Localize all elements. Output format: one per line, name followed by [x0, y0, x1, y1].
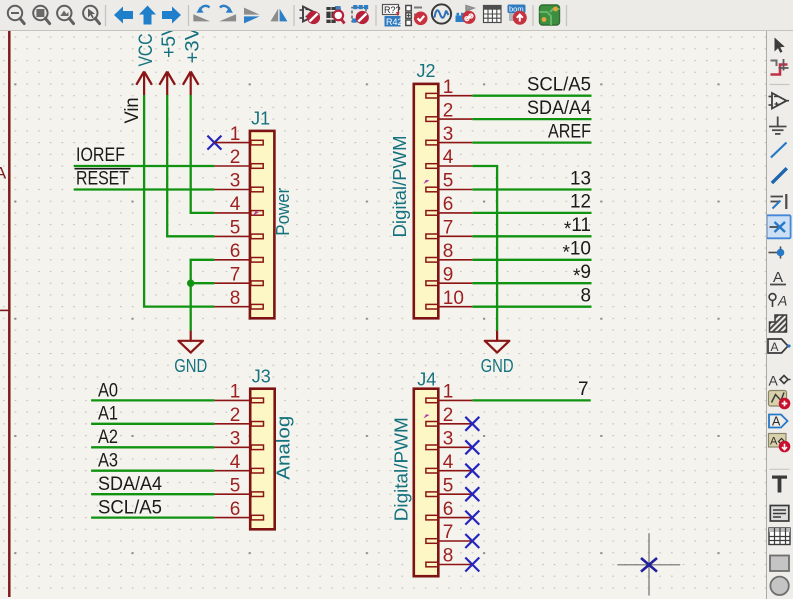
wire J3 pin3 label A2 [91, 446, 214, 448]
wire J2 pin3 to label AREF [472, 141, 591, 143]
label *11 [564, 215, 591, 240]
wire J2 pin2 to label SDA/A4 [472, 118, 591, 120]
rtool hier-label [769, 373, 791, 389]
svg-text:1: 1 [443, 382, 454, 403]
J2 anchor mark [424, 180, 430, 184]
wire J1 pin6 to GND branch [191, 260, 215, 283]
label Vin [122, 98, 143, 124]
rtool place-sheet [769, 391, 791, 410]
label AREF [548, 121, 591, 142]
svg-text:J4: J4 [417, 369, 436, 389]
svg-text:A: A [769, 373, 779, 389]
connector J1 pin 1 [214, 124, 263, 145]
svg-text:4: 4 [443, 147, 454, 168]
svg-text:8: 8 [581, 286, 592, 307]
svg-text:5: 5 [230, 218, 241, 239]
label SDA/A4 [527, 98, 591, 119]
rtool wire [771, 143, 787, 158]
rtool rule-area [770, 315, 787, 332]
connector J2 pin 3 [426, 124, 472, 145]
rtool highlight-net [771, 59, 789, 75]
no-connect J4 pin 3 [465, 440, 479, 454]
wire +3V3 vertical to pin4 row [191, 95, 215, 213]
label SCL/A5 [98, 498, 162, 519]
wire J2 pin9 to label *9 [472, 282, 591, 284]
connector J3 pin 5 [214, 475, 263, 496]
connector J1 pin 4 [214, 194, 263, 215]
connector J1 pin 5 [214, 218, 263, 239]
tool library-browser (disabled) [326, 6, 344, 24]
wire J1 pin7 to GND branch [191, 282, 215, 284]
connector J2 pin 8 [426, 241, 472, 262]
connector J2 pin 10 [426, 288, 472, 309]
wire J2 pin6 to label 12 [472, 212, 591, 214]
svg-text:VCC: VCC [136, 34, 157, 67]
svg-text:2: 2 [230, 405, 241, 426]
tool ERC [406, 6, 428, 26]
wire J2 pin8 to label *10 [472, 259, 591, 261]
svg-text:7: 7 [578, 379, 589, 400]
connector J4 pin 7 [426, 522, 472, 543]
tool zoom-out [8, 6, 24, 24]
wire J2 pin10 to label 8 [472, 306, 591, 308]
tool fields-table [484, 6, 502, 23]
tool mirror-h [244, 8, 260, 24]
svg-text:12: 12 [570, 192, 591, 213]
svg-text:1: 1 [443, 77, 454, 98]
svg-text:A1: A1 [98, 404, 118, 425]
wire J4 pin1 to label 7 [472, 399, 590, 401]
sheet frame border [0, 31, 9, 597]
wire J2 pin1 to label SCL/A5 [472, 95, 591, 97]
svg-text:Digital/PWM: Digital/PWM [392, 417, 412, 521]
wire J3 pin5 label SDA/A4 [91, 493, 214, 495]
svg-text:A2: A2 [98, 427, 118, 448]
rtool place-symbol [769, 93, 790, 109]
svg-text:Vin: Vin [122, 98, 143, 124]
svg-text:9: 9 [443, 264, 454, 285]
rtool rectangle [770, 556, 789, 572]
svg-text:6: 6 [230, 499, 241, 520]
connector J4 body [414, 389, 439, 577]
svg-text:10: 10 [443, 288, 464, 309]
rtool no-connect (active) [767, 215, 791, 238]
tool zoom-selection [83, 6, 99, 24]
cursor crosshair [617, 533, 680, 595]
tool nav-left [114, 7, 133, 24]
svg-text:5: 5 [443, 171, 454, 192]
connector J3 body [250, 389, 275, 530]
wire J3 pin2 label A1 [91, 423, 214, 425]
connector J1 body [250, 131, 275, 318]
rtool junction [769, 247, 785, 259]
rtool import-sheet-pin [769, 434, 791, 453]
svg-text:4: 4 [230, 194, 241, 215]
connector J2 body [414, 84, 439, 318]
svg-text:SDA/A4: SDA/A4 [98, 474, 162, 495]
svg-text:3: 3 [230, 171, 241, 192]
J4 value Digital/PWM [392, 417, 412, 521]
wire +5V vertical to pin5 row [167, 95, 214, 236]
svg-text:A: A [772, 415, 781, 429]
connector J4 pin 2 [426, 405, 472, 426]
rtool place-power [769, 117, 787, 134]
rtool netclass-directive [769, 293, 787, 309]
J2 reference [417, 61, 436, 81]
label A1 [98, 404, 118, 425]
svg-text:7: 7 [443, 522, 454, 543]
svg-text:13: 13 [570, 168, 591, 189]
svg-text:7: 7 [443, 218, 454, 239]
power symbol +5V [159, 23, 180, 95]
svg-text:AREF: AREF [548, 121, 591, 142]
J3 reference [252, 367, 271, 387]
svg-text:GND: GND [174, 356, 207, 376]
label RESET (with overline) [75, 168, 131, 189]
J1 value Power [273, 188, 293, 236]
wire J2 pin7 to label *11 [472, 235, 591, 237]
connector J4 pin 5 [426, 475, 472, 496]
J4 anchor mark [424, 414, 430, 418]
connector J3 pin 1 [214, 382, 263, 403]
svg-text:1: 1 [230, 124, 241, 145]
TOPBAR [0, 0, 793, 31]
label A3 [98, 451, 118, 472]
svg-text:A: A [770, 436, 778, 448]
J3 value Analog [274, 416, 294, 480]
label 7 [578, 379, 589, 400]
tool netlist-export [456, 6, 476, 24]
svg-text:Power: Power [273, 188, 293, 236]
connector J2 pin 6 [426, 194, 472, 215]
J4 reference [417, 369, 436, 389]
power symbol GND (left) [174, 331, 207, 376]
label 13 [570, 168, 591, 189]
connector J2 pin 7 [426, 218, 472, 239]
svg-text:SCL/A5: SCL/A5 [527, 75, 591, 96]
tool rotate-ccw [193, 6, 210, 22]
wire VCC vertical to pin8 row [144, 95, 214, 307]
svg-text:5: 5 [230, 475, 241, 496]
wire GND branch down [190, 283, 192, 330]
label 12 [570, 192, 591, 213]
svg-text:6: 6 [443, 194, 454, 215]
wire J3 pin6 label SCL/A5 [91, 516, 214, 518]
svg-text:+5V: +5V [159, 31, 180, 58]
svg-text:IOREF: IOREF [76, 145, 125, 166]
svg-text:3: 3 [443, 429, 454, 450]
connector J2 pin 9 [426, 264, 472, 285]
tool mirror-v [270, 9, 287, 22]
svg-text:4: 4 [443, 452, 454, 473]
no-connect J4 pin 2 [465, 417, 479, 431]
tool rotate-cw [219, 6, 236, 22]
svg-text:A3: A3 [98, 451, 118, 472]
svg-text:A: A [773, 269, 783, 286]
wire J2 pin5 to label 13 [472, 188, 591, 190]
connector J1 pin 2 [214, 147, 263, 168]
wire J3 pin4 label A3 [91, 470, 214, 472]
connector J3 pin 4 [214, 452, 263, 473]
connector J4 pin 8 [426, 546, 472, 567]
rtool text [772, 476, 787, 493]
svg-text:3: 3 [443, 124, 454, 145]
rtool circle [770, 577, 788, 595]
power symbol VCC [136, 34, 157, 96]
junction at J1 pin7 branch [187, 280, 194, 287]
wire J3 pin1 label A0 [91, 399, 214, 401]
svg-text:Digital/PWM: Digital/PWM [390, 136, 410, 238]
svg-text:R42: R42 [386, 17, 403, 27]
connector J2 pin 4 [426, 147, 472, 168]
svg-text:4: 4 [230, 452, 241, 473]
svg-text:GND: GND [481, 356, 514, 376]
tool open-pcb-editor [540, 5, 560, 25]
rtool table [769, 528, 790, 545]
svg-text:SDA/A4: SDA/A4 [527, 98, 591, 119]
svg-text:A: A [771, 340, 779, 354]
label *9 [573, 262, 591, 287]
power symbol +3V3 [182, 16, 203, 96]
label IOREF [76, 145, 125, 166]
svg-text:J1: J1 [251, 109, 270, 129]
svg-text:A0: A0 [98, 380, 118, 401]
rtool wire-to-bus entry [771, 194, 787, 209]
connector J4 pin 6 [426, 499, 472, 520]
wire J2 pin4 to GND [472, 166, 497, 331]
tool symbol-editor (disabled) [300, 7, 321, 25]
svg-text:Analog: Analog [274, 416, 294, 480]
svg-text:A: A [0, 164, 7, 183]
tool nav-up [139, 6, 156, 25]
svg-text:7: 7 [230, 264, 241, 285]
sheet frame row label A [0, 164, 7, 183]
rtool select [775, 38, 785, 53]
connector J1 pin 8 [214, 288, 263, 309]
tool nav-right [162, 7, 181, 24]
power symbol GND (right) [481, 331, 514, 376]
RIGHTBAR [766, 31, 793, 599]
no-connect J1 pin1 [207, 136, 221, 150]
rtool bus [772, 168, 787, 183]
svg-text:8: 8 [443, 546, 454, 567]
connector J2 pin 5 [426, 171, 472, 192]
connector J3 pin 3 [214, 429, 263, 450]
svg-text:J3: J3 [252, 367, 271, 387]
svg-text:J2: J2 [417, 61, 436, 81]
J1 anchor mark [253, 211, 259, 215]
connector J2 pin 2 [426, 100, 472, 121]
connector J3 pin 6 [214, 499, 263, 520]
tool annotate [383, 5, 403, 27]
svg-text:RESET: RESET [76, 168, 129, 189]
connector J3 pin 2 [214, 405, 263, 426]
rtool net-label [770, 269, 786, 286]
connector J1 pin 3 [214, 171, 263, 192]
svg-text:A: A [777, 293, 787, 309]
connector J2 pin 1 [426, 77, 472, 98]
rtool textbox [770, 506, 789, 522]
J2 value Digital/PWM [390, 136, 410, 238]
no-connect J4 pin 8 [465, 558, 479, 572]
svg-text:2: 2 [230, 147, 241, 168]
svg-text:2: 2 [443, 405, 454, 426]
svg-text:8: 8 [230, 288, 241, 309]
label SDA/A4 [98, 474, 162, 495]
svg-text:8: 8 [443, 241, 454, 262]
label *10 [562, 239, 591, 264]
label A2 [98, 427, 118, 448]
connector J1 pin 7 [214, 264, 263, 285]
no-connect J4 pin 7 [465, 534, 479, 548]
connector J1 pin 6 [214, 241, 263, 262]
tool footprint-editor (disabled) [352, 5, 369, 24]
label SCL/A5 [527, 75, 591, 96]
no-connect J4 pin 5 [465, 487, 479, 501]
svg-text:SCL/A5: SCL/A5 [98, 498, 162, 519]
svg-text:6: 6 [443, 499, 454, 520]
no-connect J4 pin 4 [465, 464, 479, 478]
no-connect J4 pin 6 [465, 511, 479, 525]
svg-text:+3V3: +3V3 [182, 31, 203, 64]
svg-text:2: 2 [443, 100, 454, 121]
label 8 [581, 286, 592, 307]
connector J4 pin 1 [426, 382, 472, 403]
connector J4 pin 4 [426, 452, 472, 473]
J1 reference [251, 109, 270, 129]
connector J4 pin 3 [426, 429, 472, 450]
svg-text:3: 3 [230, 429, 241, 450]
tool zoom-fit [33, 6, 49, 24]
wire IOREF to J1 pin2 [74, 165, 215, 167]
rtool sheet-pin [769, 415, 788, 429]
tool zoom-objects [57, 6, 73, 24]
tool simulator [432, 4, 451, 23]
rtool global-label [768, 339, 791, 354]
svg-text:6: 6 [230, 241, 241, 262]
svg-text:5: 5 [443, 475, 454, 496]
label A0 [98, 380, 118, 401]
wire RESET to J1 pin3 [74, 188, 215, 190]
svg-text:1: 1 [230, 382, 241, 403]
tool BOM [508, 5, 527, 25]
